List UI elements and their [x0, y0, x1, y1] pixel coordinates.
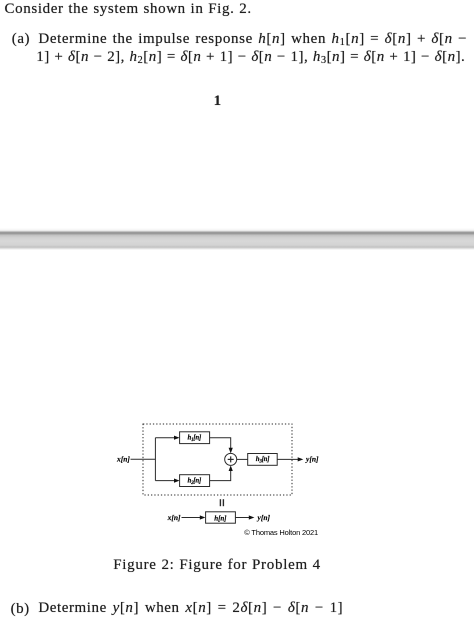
arrowhead to y[n]	[298, 457, 304, 461]
svg-text:h3[n]: h3[n]	[256, 456, 270, 465]
wire x[n] into block h	[182, 517, 202, 519]
dashed system boundary box	[143, 424, 292, 495]
svg-text:x[n]: x[n]	[116, 455, 130, 464]
arrowhead into summer top	[229, 448, 233, 454]
block h3	[248, 454, 278, 466]
paragraph (a) line 2	[36, 49, 465, 66]
label h2[n]	[188, 478, 202, 487]
label h3[n]	[256, 456, 270, 465]
wire h1 output to summer	[210, 438, 231, 449]
svg-text:x[n]: x[n]	[167, 513, 181, 522]
wire from x[n] to branch junction	[131, 458, 156, 460]
wire branch vertical	[154, 438, 156, 481]
copyright notice	[244, 528, 318, 537]
svg-text:y[n]: y[n]	[305, 455, 319, 464]
svg-text:h2[n]: h2[n]	[188, 478, 202, 487]
wire h3 output	[277, 458, 299, 460]
paragraph (b)	[11, 601, 30, 618]
plus sign of summing junction	[228, 456, 234, 462]
arrowhead into h2	[174, 479, 180, 483]
wire block h to output	[235, 517, 250, 519]
svg-text:© Thomas Holton 2021: © Thomas Holton 2021	[244, 528, 318, 537]
arrowhead to y[n] of equivalent system	[249, 515, 255, 519]
label h[n]	[214, 514, 227, 522]
block h1	[180, 432, 210, 444]
page number 1	[214, 93, 222, 110]
node y[n] output label	[305, 455, 319, 464]
wire h2 output to summer	[210, 470, 231, 481]
wire branch to h2 input	[155, 480, 175, 482]
block h (equivalent impulse response)	[206, 512, 236, 523]
paragraph (a) line 1	[12, 31, 30, 48]
block h2	[180, 475, 210, 487]
node x[n] label of equivalent system	[167, 513, 181, 522]
line: Consider the system shown in Fig. 2.	[5, 1, 252, 18]
arrowhead into block h	[200, 515, 206, 519]
svg-text:y[n]: y[n]	[257, 513, 271, 522]
arrowhead into h1	[174, 436, 180, 440]
label h1[n]	[188, 435, 202, 444]
equivalence symbol (parallel bars)	[220, 499, 223, 506]
page separator bar	[0, 228, 474, 250]
node x[n] input label	[116, 455, 130, 464]
wire summer to h3 input	[237, 458, 248, 460]
arrowhead into summer bottom	[229, 465, 233, 471]
wire branch to h1 input	[155, 437, 175, 439]
svg-text:h1[n]: h1[n]	[188, 435, 202, 444]
node y[n] label of equivalent system	[257, 513, 271, 522]
figure caption	[113, 557, 321, 574]
svg-text:h[n]: h[n]	[214, 514, 227, 522]
summing junction circle	[225, 453, 237, 465]
